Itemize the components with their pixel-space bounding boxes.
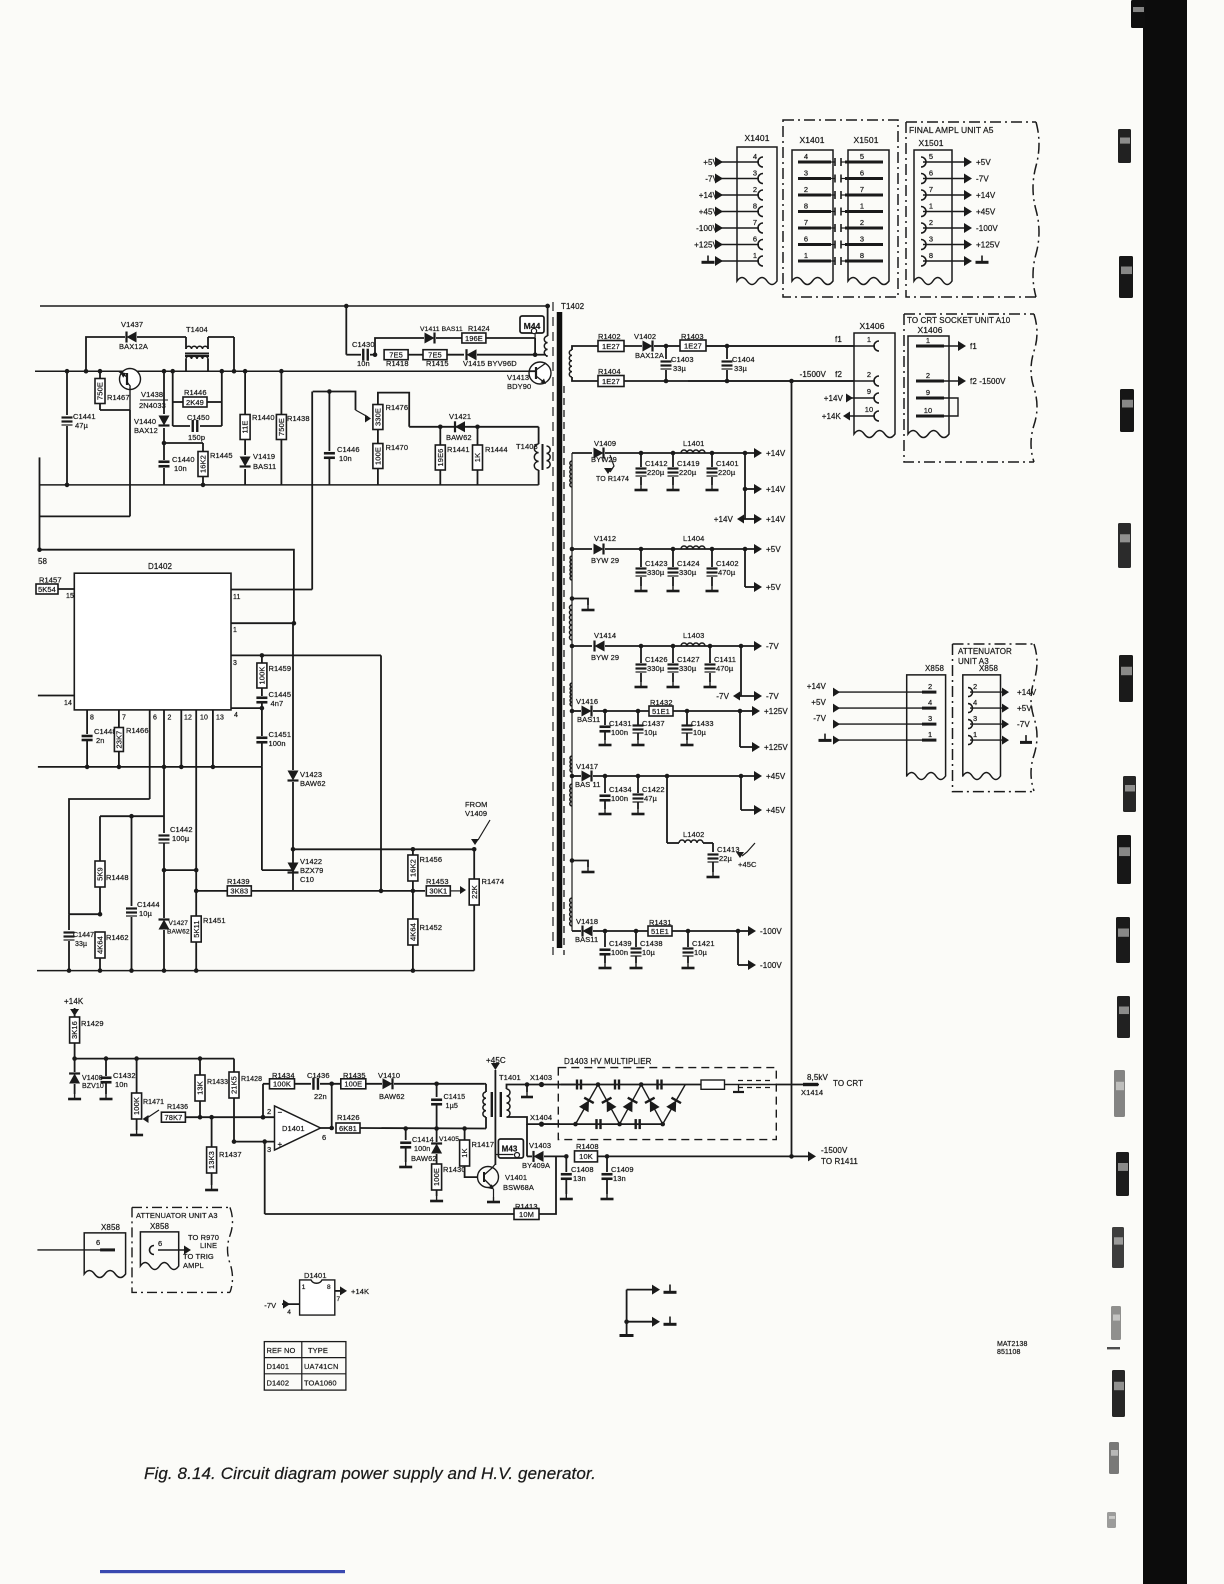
svg-text:5K9: 5K9: [96, 867, 105, 881]
svg-text:V1419: V1419: [253, 452, 275, 461]
svg-text:+14K: +14K: [64, 997, 84, 1006]
svg-text:L1403: L1403: [683, 631, 704, 640]
svg-text:-100V: -100V: [760, 927, 782, 936]
+14V output arrows: [714, 448, 786, 524]
capacitor C1440 10n: [159, 443, 195, 485]
svg-text:C1431: C1431: [609, 719, 632, 728]
svg-text:TO R1411: TO R1411: [821, 1157, 858, 1166]
D1402 pin 7 and R1466 23K7: [114, 710, 148, 769]
svg-text:-100V: -100V: [696, 224, 718, 233]
capacitor C1424 330u: [667, 547, 700, 591]
diode V1418 BAS11: [572, 917, 648, 944]
svg-text:9: 9: [867, 387, 871, 396]
svg-text:10µ: 10µ: [642, 948, 656, 957]
wire FROM V1409 rail: [291, 847, 477, 852]
resistor R1426 6K81: [336, 1113, 484, 1133]
T1402 winding section above +45V: [570, 756, 572, 772]
resistor R1470 100E: [373, 430, 408, 485]
svg-text:220µ: 220µ: [647, 468, 665, 477]
svg-text:7: 7: [122, 715, 126, 722]
X1406 socket pins 9-10 jumper: [916, 388, 958, 416]
svg-text:+: +: [278, 1140, 283, 1149]
svg-text:1: 1: [928, 730, 932, 739]
svg-text:V1438: V1438: [141, 390, 163, 399]
T1402 winding -100V section: [570, 898, 572, 926]
svg-text:3: 3: [928, 714, 932, 723]
svg-text:C1440: C1440: [172, 455, 195, 464]
svg-text:AMPL: AMPL: [183, 1261, 204, 1270]
svg-text:4: 4: [287, 1309, 291, 1316]
resistor R1456 16K2: [408, 849, 442, 893]
capacitor C1427 330u: [667, 644, 700, 687]
wire V1421 row: [409, 426, 538, 428]
capacitor C1439 100n: [599, 929, 632, 968]
svg-text:D1401: D1401: [304, 1271, 327, 1280]
capacitor C1451 100n: [256, 730, 291, 767]
capacitor C1413 22u +45C: [707, 843, 758, 877]
svg-text:10µ: 10µ: [694, 948, 708, 957]
svg-text:REF NO: REF NO: [267, 1346, 296, 1355]
svg-text:C1411: C1411: [714, 655, 736, 664]
wire X1404 to V1403: [526, 1124, 528, 1156]
svg-text:9: 9: [926, 388, 930, 397]
svg-text:X858: X858: [925, 664, 945, 673]
svg-text:TOA1060: TOA1060: [304, 1379, 337, 1388]
T1402 winding f1-f2: [569, 350, 572, 377]
svg-text:100µ: 100µ: [172, 834, 190, 843]
svg-text:1µ5: 1µ5: [446, 1101, 458, 1110]
svg-text:+14V: +14V: [824, 394, 844, 403]
svg-text:C1409: C1409: [611, 1165, 634, 1174]
multiplier top row wire and caps: [561, 1080, 701, 1090]
svg-text:f2 -1500V: f2 -1500V: [970, 377, 1006, 386]
capacitor C1402 470u: [706, 547, 739, 591]
svg-text:+125V: +125V: [764, 707, 788, 716]
wire H3: [164, 869, 196, 871]
svg-text:R1441: R1441: [447, 445, 470, 454]
resistor R1432 51E1: [649, 698, 740, 716]
T1401 secondary bottom lead: [507, 1117, 542, 1124]
capacitor C1426 330u: [635, 644, 668, 687]
resistor R1441 19E6: [435, 425, 469, 485]
svg-text:10: 10: [865, 405, 874, 414]
svg-text:BAS 11: BAS 11: [575, 780, 600, 789]
svg-text:6: 6: [158, 1239, 162, 1248]
svg-text:-100V: -100V: [976, 224, 998, 233]
multiplier series resistor: [701, 1080, 776, 1089]
svg-text:V1417: V1417: [576, 762, 598, 771]
wire V1438 base to D1402 pin1 path: [37, 410, 294, 623]
page binding black band: [1143, 0, 1187, 1584]
svg-text:V1405: V1405: [439, 1136, 459, 1143]
svg-text:22µ: 22µ: [719, 854, 733, 863]
+45C supply to T1401: [486, 1056, 506, 1165]
X1406 pin 9 +14V line: [824, 387, 879, 403]
svg-text:100n: 100n: [269, 739, 286, 748]
svg-text:C1423: C1423: [645, 559, 668, 568]
capacitor C1411 470u: [704, 644, 737, 687]
svg-text:13K: 13K: [196, 1081, 205, 1095]
svg-text:100K: 100K: [132, 1097, 141, 1115]
X858 pin 4 +5V line: [811, 698, 1032, 713]
T1401 secondary top lead / ground stub: [507, 1082, 542, 1097]
svg-text:13: 13: [216, 715, 224, 722]
svg-text:3K83: 3K83: [230, 887, 248, 896]
svg-text:+14V: +14V: [976, 191, 996, 200]
transformer T1404: [185, 325, 236, 374]
lower network ground rail: [37, 970, 474, 972]
svg-text:X1404: X1404: [530, 1113, 552, 1122]
+125V output arrows: [738, 706, 789, 752]
diode V1423 BAW62: [288, 623, 326, 864]
svg-text:3: 3: [233, 660, 237, 667]
svg-text:C1419: C1419: [677, 459, 700, 468]
X858 pin 1 ground line: [819, 730, 1033, 745]
TO CRT SOCKET UNIT A10 box: [904, 314, 1037, 462]
svg-text:C1433: C1433: [691, 719, 714, 728]
svg-text:C1415: C1415: [444, 1092, 466, 1101]
svg-text:7: 7: [804, 218, 808, 227]
op-amp D1401 triangle: [267, 1106, 332, 1154]
svg-text:L1401: L1401: [683, 439, 704, 448]
svg-text:150p: 150p: [188, 433, 205, 442]
svg-text:13K3: 13K3: [207, 1151, 216, 1169]
svg-text:X1403: X1403: [530, 1073, 552, 1082]
HV multiplier box D1403: [558, 1057, 776, 1140]
connector X858 (loose): [37, 1223, 125, 1278]
svg-text:47µ: 47µ: [644, 794, 658, 803]
svg-text:V1409: V1409: [594, 439, 616, 448]
svg-text:2: 2: [867, 370, 871, 379]
svg-text:R1418: R1418: [386, 359, 409, 368]
svg-text:-1500V: -1500V: [800, 370, 827, 379]
svg-text:330µ: 330µ: [647, 664, 665, 673]
diode V1405 BAW62: [411, 1129, 459, 1165]
svg-text:C1404: C1404: [732, 355, 755, 364]
X1406 socket pin 1 wire f1: [916, 336, 977, 351]
svg-text:C1434: C1434: [609, 785, 632, 794]
svg-text:−: −: [278, 1108, 283, 1117]
capacitor C1431 100n: [599, 709, 632, 745]
svg-text:FINAL AMPL UNIT A5: FINAL AMPL UNIT A5: [909, 125, 994, 135]
svg-text:X858: X858: [101, 1223, 121, 1232]
svg-text:V1402: V1402: [634, 332, 656, 341]
svg-text:+14K: +14K: [351, 1287, 369, 1296]
svg-text:V1440: V1440: [134, 417, 156, 426]
svg-text:R1474: R1474: [482, 877, 505, 886]
svg-text:2: 2: [168, 715, 172, 722]
svg-text:R1404: R1404: [598, 367, 621, 376]
T1403 drive transformer: [516, 427, 550, 485]
svg-text:V1418: V1418: [576, 917, 598, 926]
svg-text:8: 8: [860, 251, 864, 260]
svg-text:BAW62: BAW62: [167, 929, 190, 936]
svg-text:4K64: 4K64: [409, 923, 418, 941]
svg-text:BAW62: BAW62: [300, 779, 326, 788]
svg-text:BAW62: BAW62: [411, 1154, 437, 1163]
svg-text:+45V: +45V: [766, 806, 786, 815]
lower ground rail wire: [40, 484, 539, 486]
svg-text:78K7: 78K7: [164, 1113, 182, 1122]
svg-text:5: 5: [860, 152, 864, 161]
svg-text:-7V: -7V: [1017, 720, 1030, 729]
feedback row wire: [261, 1084, 270, 1120]
resistor R1434 100K: [270, 1071, 312, 1089]
svg-text:R1471: R1471: [143, 1099, 164, 1106]
T1402 winding +14V section: [570, 461, 572, 487]
resistor R1424 196E: [462, 324, 535, 355]
T1402 winding section above +125V: [570, 683, 572, 706]
svg-text:X1501: X1501: [853, 135, 878, 145]
resistor R1435 100E: [341, 1071, 382, 1089]
svg-text:TO R1474: TO R1474: [596, 476, 629, 483]
resistor R1467 750E: [95, 369, 130, 410]
svg-text:ATTENUATOR UNIT A3: ATTENUATOR UNIT A3: [136, 1211, 218, 1220]
resistor R1431 51E1: [648, 918, 738, 936]
wire f1 row: [572, 346, 598, 350]
capacitor C1447 33u: [64, 914, 95, 973]
svg-text:R1459: R1459: [269, 664, 292, 673]
svg-text:R1453: R1453: [426, 877, 449, 886]
svg-text:V1412: V1412: [594, 534, 616, 543]
-100V output arrows: [736, 926, 783, 970]
svg-text:100K: 100K: [258, 667, 267, 685]
svg-text:-7V: -7V: [976, 175, 989, 184]
svg-text:-7V: -7V: [813, 714, 826, 723]
diode V1410 BAW62: [378, 1071, 484, 1101]
svg-text:1: 1: [926, 336, 930, 345]
svg-text:100E: 100E: [374, 447, 383, 465]
inductor L1404: [681, 534, 705, 549]
svg-text:7: 7: [753, 218, 757, 227]
+14K supply label: [64, 997, 84, 1017]
svg-text:11E: 11E: [241, 420, 250, 433]
capacitor C1430 10n: [344, 304, 377, 368]
svg-text:2K49: 2K49: [186, 398, 204, 407]
svg-text:C1403: C1403: [671, 355, 694, 364]
svg-text:X858: X858: [150, 1222, 170, 1231]
X1406 pin 10 +14K line: [822, 405, 879, 421]
zener V1422 BZX79 C10: [288, 857, 324, 891]
resistor R1430 100E: [430, 1164, 466, 1201]
multiplier bottom row wire and caps: [542, 1119, 666, 1129]
svg-text:X1406: X1406: [917, 325, 942, 335]
svg-text:R1408: R1408: [576, 1142, 599, 1151]
svg-text:10µ: 10µ: [139, 909, 153, 918]
svg-text:C10: C10: [300, 875, 314, 884]
capacitor C1401 220u: [706, 451, 739, 490]
svg-text:C1430: C1430: [352, 340, 375, 349]
wire -1500V vertical to HV section: [789, 379, 794, 1157]
transistor V1413 BDY90: [507, 362, 551, 391]
svg-text:Fig. 8.14. Circuit diagram pow: Fig. 8.14. Circuit diagram power supply …: [144, 1464, 596, 1483]
D1402 pin 2 stub: [164, 710, 172, 767]
svg-text:+14V: +14V: [807, 682, 827, 691]
svg-text:15: 15: [66, 593, 74, 600]
capacitor C1444 10u: [126, 816, 160, 973]
capacitor C1450 150p: [173, 413, 222, 442]
svg-text:7: 7: [860, 185, 864, 194]
svg-text:6: 6: [153, 715, 157, 722]
svg-text:100n: 100n: [611, 948, 628, 957]
svg-text:3: 3: [267, 1145, 271, 1154]
svg-text:BAX12A: BAX12A: [119, 342, 148, 351]
resistor R1404 1E27: [572, 367, 854, 387]
svg-text:+45C: +45C: [738, 860, 757, 869]
svg-text:2: 2: [973, 682, 977, 691]
resistor R1428 21K5: [229, 1059, 262, 1144]
svg-text:L1402: L1402: [683, 830, 704, 839]
svg-text:3: 3: [804, 169, 808, 178]
svg-text:FROM: FROM: [465, 800, 487, 809]
capacitor C1437 10u: [632, 709, 665, 745]
svg-text:-7V: -7V: [766, 692, 779, 701]
svg-text:6: 6: [753, 235, 757, 244]
svg-text:+5V: +5V: [703, 158, 718, 167]
svg-text:X1401: X1401: [799, 135, 824, 145]
T1402 primary winding top: [544, 304, 550, 356]
svg-text:R1470: R1470: [386, 443, 409, 452]
svg-text:R1444: R1444: [485, 445, 508, 454]
resistor R1408 10K: [564, 1142, 792, 1162]
T1402 winding section below +45V: [570, 784, 572, 806]
svg-text:V1416: V1416: [576, 697, 598, 706]
svg-text:R1433: R1433: [207, 1079, 228, 1086]
svg-text:10K: 10K: [579, 1152, 593, 1161]
svg-text:1E27: 1E27: [684, 341, 702, 350]
svg-text:R1451: R1451: [203, 916, 226, 925]
T1402 secondary winding wire: [571, 453, 573, 931]
print code MAT2138 851108: [997, 1341, 1028, 1356]
svg-text:V1411 BAS11: V1411 BAS11: [420, 326, 463, 333]
svg-text:+14K: +14K: [822, 412, 842, 421]
svg-text:750E: 750E: [96, 382, 105, 400]
svg-text:2N4033: 2N4033: [139, 401, 166, 410]
svg-text:ATTENUATOR: ATTENUATOR: [958, 647, 1012, 656]
X858 socket in attenuator: [140, 1222, 191, 1270]
svg-text:5K54: 5K54: [38, 585, 56, 594]
capacitor C1446 10n: [324, 392, 360, 485]
svg-text:+5V: +5V: [766, 545, 781, 554]
svg-text:100n: 100n: [414, 1144, 430, 1153]
resistor R1429 3K16: [70, 1017, 104, 1059]
svg-text:C1432: C1432: [113, 1071, 136, 1080]
svg-text:5: 5: [929, 152, 933, 161]
capacitor C1432 10n: [100, 1059, 136, 1099]
resistor R1452 4K64: [408, 891, 442, 973]
svg-text:R1424: R1424: [468, 324, 490, 333]
svg-text:R1415: R1415: [426, 359, 449, 368]
multiplier dashed continuation: [738, 1081, 772, 1088]
svg-text:X858: X858: [979, 664, 999, 673]
capacitor C1438 10u: [630, 929, 663, 968]
svg-text:C1414: C1414: [412, 1135, 434, 1144]
svg-text:V1422: V1422: [300, 857, 322, 866]
svg-text:3: 3: [929, 235, 933, 244]
T1402 winding section above -7V: [570, 605, 573, 640]
resistor R1451 5K11: [191, 767, 225, 973]
capacitor C1409 13n: [601, 1154, 634, 1199]
resistor R1457 5K54 at pin 15: [36, 576, 74, 601]
capacitor C1434 100n: [599, 774, 632, 814]
svg-text:X1501: X1501: [918, 138, 943, 148]
X1406 pin 1 f1 line: [688, 335, 879, 351]
resistor R1436 78K7: [161, 1104, 274, 1122]
resistor R1403 1E27: [666, 332, 854, 351]
svg-text:D1403 HV MULTIPLIER: D1403 HV MULTIPLIER: [564, 1057, 652, 1066]
svg-text:C1442: C1442: [170, 825, 193, 834]
svg-text:1E27: 1E27: [602, 342, 620, 351]
svg-text:8,5kV: 8,5kV: [807, 1073, 829, 1082]
wire +14K rail to dividers: [72, 1056, 234, 1061]
svg-text:BAS11: BAS11: [575, 935, 598, 944]
resistor R1446 2K49: [170, 369, 224, 426]
diode V1402 BAX12A: [624, 332, 666, 360]
svg-text:V1401: V1401: [505, 1173, 527, 1182]
svg-text:23K7: 23K7: [115, 731, 124, 749]
connector X1406 (plug): [854, 321, 895, 438]
IC D1402 control circuit: [74, 562, 231, 710]
test point M43: [495, 1139, 523, 1158]
svg-text:6: 6: [322, 1133, 326, 1142]
X1406 pin 2 -1500V f2 line: [688, 370, 879, 386]
wire op-amp pin3 row: [234, 1141, 275, 1143]
svg-text:851108: 851108: [997, 1349, 1020, 1356]
svg-text:33µ: 33µ: [75, 941, 87, 948]
D1402 pin 4 wire: [231, 706, 264, 719]
resistor R1438 750E: [276, 369, 309, 485]
svg-text:BYW 29: BYW 29: [591, 653, 619, 662]
svg-text:330E: 330E: [374, 408, 383, 426]
svg-text:V1414: V1414: [594, 631, 616, 640]
svg-text:R1466: R1466: [126, 726, 149, 735]
svg-text:30K1: 30K1: [429, 887, 447, 896]
node X1404: [530, 1113, 560, 1127]
svg-text:330µ: 330µ: [679, 568, 697, 577]
transformer T1402 core: [557, 312, 563, 948]
svg-text:+45V: +45V: [766, 772, 786, 781]
IC D1401 supply symbol: [264, 1271, 369, 1316]
svg-text:BDY90: BDY90: [507, 382, 531, 391]
node X1403: [530, 1073, 575, 1087]
svg-text:BAW62: BAW62: [446, 433, 472, 442]
inductor L1402 +45C branch: [665, 774, 713, 843]
resistor R1459 100K: [257, 655, 291, 688]
svg-text:R1436: R1436: [167, 1104, 188, 1111]
svg-text:+14V: +14V: [766, 515, 786, 524]
svg-text:+14V: +14V: [766, 449, 786, 458]
capacitor C1442 100u: [159, 825, 193, 872]
svg-text:R1438: R1438: [287, 414, 310, 423]
svg-text:6: 6: [929, 169, 933, 178]
svg-text:TO CRT SOCKET UNIT A10: TO CRT SOCKET UNIT A10: [907, 316, 1011, 325]
svg-text:58: 58: [38, 557, 48, 566]
svg-text:13n: 13n: [613, 1174, 626, 1183]
svg-text:TO TRIG: TO TRIG: [183, 1252, 214, 1261]
svg-text:UA741CN: UA741CN: [304, 1362, 338, 1371]
svg-text:C1444: C1444: [137, 900, 160, 909]
svg-text:5K11: 5K11: [192, 920, 201, 937]
svg-text:X1406: X1406: [859, 321, 884, 331]
svg-text:11: 11: [233, 594, 240, 601]
svg-text:470µ: 470µ: [716, 664, 734, 673]
capacitor C1419 220u: [667, 451, 700, 490]
diode V1437 BAX12A loop: [84, 320, 186, 374]
svg-text:7: 7: [929, 185, 933, 194]
svg-text:6K81: 6K81: [339, 1124, 357, 1133]
svg-text:3: 3: [753, 169, 757, 178]
svg-text:100E: 100E: [432, 1168, 441, 1186]
